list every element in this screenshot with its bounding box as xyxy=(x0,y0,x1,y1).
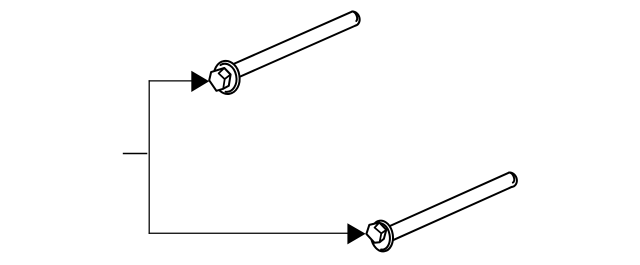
bolt 2 (lower hex flange bolt): hex front face edges xyxy=(375,223,382,243)
bolt 1 (upper hex flange bolt): hex front face edges xyxy=(219,68,225,89)
bolt 2 (lower hex flange bolt): rounded tip cap xyxy=(509,173,517,187)
bolt 2 (lower hex flange bolt): shaft bottom line xyxy=(389,187,512,242)
bolt 1 (upper hex flange bolt): flange outer rim ellipse xyxy=(214,61,240,94)
arrowhead to bolt 1 xyxy=(191,71,209,92)
bolt 2 (lower hex flange bolt): tip chamfer arc xyxy=(509,173,514,183)
bolt 1 (upper hex flange bolt): rounded tip cap xyxy=(352,12,360,26)
bottom horizontal leader line xyxy=(149,232,349,234)
leader bracket xyxy=(123,80,349,234)
bolt 1 (upper hex flange bolt): flange front rim arc xyxy=(220,64,236,92)
arrowhead to bolt 2 xyxy=(347,223,365,244)
bolt 2 (lower hex flange bolt): flange front rim arc xyxy=(376,223,390,249)
bolt 1 (upper hex flange bolt): hex head silhouette xyxy=(209,68,230,91)
bolt 2 (lower hex flange bolt): hex head silhouette xyxy=(366,223,386,243)
bolt 2 (lower hex flange bolt): flange outer rim ellipse xyxy=(371,221,393,252)
bolt 1 (upper hex flange bolt): tip chamfer arc xyxy=(353,11,357,21)
left tick (callout stub) xyxy=(123,153,148,155)
bolt 2 (lower hex flange bolt) xyxy=(366,173,517,252)
bolt 1 (upper hex flange bolt) xyxy=(209,11,359,94)
bolt 2 (lower hex flange bolt): hex corner edge at right xyxy=(381,230,386,234)
vertical bracket line xyxy=(148,80,150,234)
top horizontal leader line xyxy=(149,80,193,82)
bolt 1 (upper hex flange bolt): hex corner edge at right xyxy=(225,75,231,80)
bolt 1 (upper hex flange bolt): shaft top line xyxy=(229,12,352,66)
bolt 1 (upper hex flange bolt): shaft bottom line xyxy=(235,26,355,79)
bolt 2 (lower hex flange bolt): shaft top line xyxy=(386,173,509,228)
